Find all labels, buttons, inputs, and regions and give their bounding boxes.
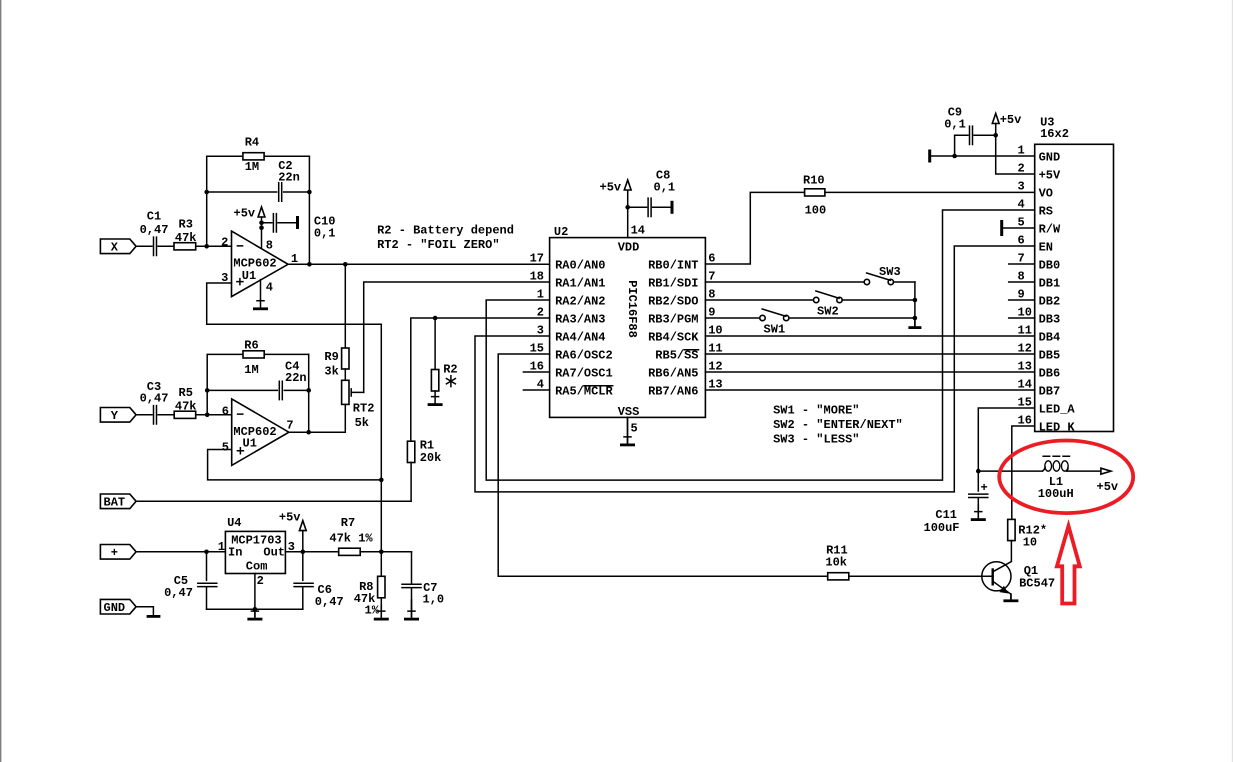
svg-text:+5v: +5v	[600, 180, 622, 194]
svg-text:DB7: DB7	[1039, 385, 1061, 399]
capacitor C11	[969, 494, 988, 497]
wire U1b pin5 loop	[208, 450, 382, 480]
svg-text:Y: Y	[111, 409, 119, 423]
wire feedback C4 branch	[207, 389, 309, 391]
switch SW3	[864, 265, 900, 285]
svg-text:2: 2	[221, 236, 228, 250]
wire Out to R7	[285, 551, 338, 553]
capacitor C1	[154, 237, 157, 255]
svg-text:1M: 1M	[245, 160, 259, 174]
wire R1 bottom to BAT	[410, 463, 412, 502]
svg-text:SW2 - "ENTER/NEXT": SW2 - "ENTER/NEXT"	[773, 418, 903, 432]
svg-text:RB1/SDI: RB1/SDI	[648, 277, 698, 291]
overline SS	[684, 349, 698, 351]
wire feedback right vertical U1b	[308, 354, 310, 432]
svg-text:0,47: 0,47	[140, 223, 169, 237]
ground switches	[908, 318, 921, 328]
annotation red arrow	[1057, 526, 1080, 604]
wire C8 branch	[628, 206, 671, 208]
wire U1a output to RA0	[288, 263, 549, 265]
svg-text:RB0/INT: RB0/INT	[648, 259, 698, 273]
potentiometer RT2	[342, 380, 349, 404]
svg-text:SW3: SW3	[879, 265, 901, 279]
svg-text:4: 4	[1018, 197, 1025, 211]
wire VDD pin14	[627, 191, 629, 238]
svg-text:SW3 - "LESS": SW3 - "LESS"	[773, 432, 859, 446]
wire RA6 to R11	[498, 354, 828, 576]
wire BAT	[136, 500, 411, 502]
wire R12 to Q1 collector	[993, 541, 1012, 572]
svg-text:GND: GND	[1039, 151, 1061, 165]
wire LCD GND pin1	[931, 155, 1034, 157]
svg-text:3: 3	[1018, 179, 1025, 193]
svg-text:SW1: SW1	[764, 323, 786, 337]
svg-text:22n: 22n	[278, 171, 300, 185]
wire RA3 to R1	[411, 318, 550, 441]
wire DB3 stub	[1009, 317, 1035, 319]
svg-text:R7: R7	[341, 516, 355, 530]
resistor R10	[805, 189, 825, 196]
svg-text:1: 1	[218, 540, 225, 554]
svg-text:13: 13	[1018, 359, 1032, 373]
svg-text:12: 12	[1018, 341, 1032, 355]
svg-text:+5v: +5v	[234, 207, 256, 221]
wire RA0 node down to R9	[344, 264, 346, 348]
junction feedback/output U1b	[306, 430, 311, 435]
ground R2	[428, 391, 443, 405]
svg-text:0,1: 0,1	[944, 117, 966, 131]
wire to C7	[411, 552, 413, 583]
svg-text:DB0: DB0	[1039, 259, 1061, 273]
svg-text:100uF: 100uF	[924, 521, 960, 535]
wire RB4 to DB4	[705, 335, 1034, 337]
junction C4 right	[306, 388, 311, 393]
svg-text:BAT: BAT	[104, 496, 126, 510]
svg-text:DB5: DB5	[1039, 349, 1061, 363]
terminal X	[100, 239, 136, 255]
wire R5 to U1b pin6	[196, 414, 232, 416]
svg-text:R6: R6	[244, 338, 258, 352]
svg-text:6: 6	[222, 405, 229, 419]
power +5v arrow LCD	[992, 114, 999, 124]
junction R2 tap	[433, 316, 438, 321]
capacitor C6	[294, 583, 313, 586]
svg-text:1M: 1M	[244, 363, 258, 377]
wire C1 to R3	[158, 245, 174, 247]
svg-text:In: In	[228, 545, 242, 559]
svg-text:47k 1%: 47k 1%	[329, 531, 373, 545]
junction R9 branch	[343, 262, 348, 267]
wire RB3 to SW1	[705, 317, 759, 319]
ground U4	[247, 610, 262, 619]
wire RB7 to DB7	[705, 389, 1034, 391]
wire R11 to Q1 base	[849, 575, 993, 577]
svg-text:2: 2	[537, 305, 544, 319]
wire RA4 to LCD EN	[475, 246, 1035, 492]
svg-text:RT2: RT2	[353, 401, 375, 415]
terminal +	[100, 545, 136, 561]
svg-text:R2: R2	[443, 362, 457, 376]
wire RB2 to SW2	[705, 299, 813, 301]
svg-text:SW2: SW2	[817, 305, 839, 319]
wire to R2	[434, 318, 436, 370]
junction Com ground	[253, 607, 258, 612]
svg-text:5k: 5k	[355, 416, 369, 430]
junction U1b inverting input	[205, 413, 210, 418]
wire +5v to pin8	[261, 217, 263, 248]
inductor L1	[1043, 456, 1070, 471]
value mark * R2	[446, 376, 455, 387]
resistor R5	[174, 411, 196, 418]
svg-text:EN: EN	[1039, 241, 1053, 255]
regulator U4 MCP1703	[225, 531, 285, 573]
net stub bar C10	[296, 216, 299, 229]
wire to L1	[978, 470, 1042, 472]
svg-text:0,47: 0,47	[140, 392, 169, 406]
svg-text:22n: 22n	[285, 371, 307, 385]
junction C9 ground branch	[952, 154, 957, 159]
svg-text:GND: GND	[104, 601, 126, 615]
resistor R3	[174, 243, 196, 250]
wire U1b output to RT2	[289, 404, 345, 432]
junction +5v LCD	[993, 133, 998, 138]
svg-text:C1: C1	[147, 210, 161, 224]
svg-text:17: 17	[530, 251, 544, 265]
resistor R1	[407, 441, 414, 462]
wire + to U4 In	[136, 551, 225, 553]
wire X to C1	[136, 245, 152, 247]
svg-text:0,47: 0,47	[315, 595, 344, 609]
wire R7 to divider node	[360, 551, 411, 553]
svg-text:2: 2	[257, 574, 264, 588]
wire C3 to R5	[158, 414, 174, 416]
svg-text:PIC16F88: PIC16F88	[625, 280, 639, 338]
svg-text:RA4/AN4: RA4/AN4	[555, 331, 605, 345]
wire RB0 up to R10	[705, 192, 804, 264]
svg-text:10k: 10k	[825, 555, 847, 569]
op-amp U1 (A half, MCP602)	[232, 231, 289, 297]
svg-text:11: 11	[1018, 323, 1032, 337]
svg-text:RA5/MCLR: RA5/MCLR	[555, 385, 613, 399]
wire C10 branch	[262, 222, 297, 224]
wire pin4 to ground	[260, 280, 262, 300]
junction C2 right	[307, 190, 312, 195]
wire R9 to RT2	[344, 369, 346, 380]
svg-text:4: 4	[266, 280, 273, 294]
capacitor C5	[198, 583, 217, 586]
capacitor C3	[154, 406, 157, 424]
resistor R9	[342, 348, 349, 369]
svg-text:47k: 47k	[175, 400, 197, 414]
svg-text:RB7/AN6: RB7/AN6	[648, 385, 698, 399]
ground C7	[404, 600, 419, 619]
svg-text:U1: U1	[242, 269, 256, 283]
svg-text:R5: R5	[179, 386, 193, 400]
capacitor C7	[402, 584, 421, 587]
terminal GND	[100, 599, 136, 615]
wire R/W stub	[1003, 227, 1034, 229]
wire L1 to +5v arrow	[1067, 470, 1101, 472]
wire U1a pin3 loop	[207, 283, 382, 324]
wire C11 to ground	[977, 498, 979, 517]
svg-text:5: 5	[222, 440, 229, 454]
junction C2 left	[204, 190, 209, 195]
wire rail to ground	[254, 609, 256, 616]
svg-text:RA3/AN3: RA3/AN3	[555, 313, 605, 327]
terminal Y	[100, 408, 136, 424]
net stub bar R/W	[1000, 220, 1003, 236]
capacitor C9	[970, 126, 973, 144]
svg-text:+5V: +5V	[1039, 169, 1061, 183]
wire DB0 stub	[1009, 263, 1035, 265]
svg-text:1,0: 1,0	[423, 593, 445, 607]
svg-text:100: 100	[805, 204, 827, 218]
net stub bar LCD GND	[928, 150, 931, 163]
svg-text:U4: U4	[227, 516, 241, 530]
wire RA5 stub	[523, 389, 549, 391]
svg-text:5: 5	[631, 421, 638, 435]
svg-text:VO: VO	[1039, 187, 1053, 201]
svg-text:47k: 47k	[175, 231, 197, 245]
svg-text:RA6/OSC2: RA6/OSC2	[555, 349, 613, 363]
resistor R12	[1008, 519, 1015, 540]
svg-text:X: X	[111, 241, 119, 255]
svg-text:16x2: 16x2	[1040, 127, 1069, 141]
svg-text:RB4/SCK: RB4/SCK	[648, 331, 699, 345]
wire SW2 to gnd rail	[842, 299, 915, 301]
svg-text:RB3/PGM: RB3/PGM	[648, 313, 698, 327]
resistor R4	[243, 153, 264, 160]
wire feedback loop R4 top	[207, 156, 310, 246]
svg-text:DB1: DB1	[1039, 277, 1061, 291]
svg-text:DB3: DB3	[1039, 313, 1061, 327]
resistor R8	[378, 576, 385, 598]
svg-text:18: 18	[530, 269, 544, 283]
wire ground rail U4	[207, 608, 303, 610]
svg-text:RB6/AN5: RB6/AN5	[648, 367, 698, 381]
svg-text:RB2/SDO: RB2/SDO	[648, 295, 698, 309]
wire C6 to rail	[302, 587, 304, 609]
junction L1 / C11	[976, 469, 981, 474]
junction SW1 rail	[913, 316, 918, 321]
junction SW2 rail	[913, 298, 918, 303]
svg-text:8: 8	[266, 238, 273, 252]
ground VSS	[620, 417, 635, 445]
wire bias vertical	[380, 324, 382, 552]
ground R8	[374, 605, 389, 619]
svg-text:100uH: 100uH	[1038, 487, 1074, 501]
wire to R8	[380, 552, 382, 577]
svg-text:+: +	[111, 546, 118, 560]
svg-text:DB4: DB4	[1039, 331, 1061, 345]
svg-text:R9: R9	[324, 350, 338, 364]
wire RB6 to DB6	[705, 371, 1034, 373]
wire C7 to ground	[411, 588, 413, 616]
power +5v arrow VDD	[624, 180, 631, 190]
wire to C11	[977, 471, 979, 491]
net stub bar C8	[671, 201, 674, 214]
svg-text:14: 14	[1018, 377, 1032, 391]
wire feedback loop R6 top	[207, 354, 309, 414]
wire GND terminal	[136, 607, 153, 615]
wire RA7 stub	[523, 371, 549, 373]
svg-text:3k: 3k	[324, 365, 338, 379]
wire R10 to LCD VO	[825, 191, 1035, 193]
capacitor C2	[279, 183, 282, 201]
svg-text:+5v: +5v	[279, 510, 301, 524]
switch SW1	[760, 309, 789, 337]
svg-text:R2 - Battery depend: R2 - Battery depend	[377, 224, 514, 238]
svg-text:LED_A: LED_A	[1039, 403, 1076, 417]
wire DB2 stub	[1009, 299, 1035, 301]
svg-text:U2: U2	[554, 225, 568, 239]
svg-text:C11: C11	[935, 508, 957, 522]
svg-text:RA1/AN1: RA1/AN1	[555, 277, 605, 291]
capacitor C4	[279, 381, 282, 399]
svg-text:10: 10	[1023, 535, 1037, 549]
power +5v arrow U4	[299, 521, 306, 531]
wire +5v arrow stub	[302, 531, 304, 552]
svg-text:0,1: 0,1	[654, 181, 676, 195]
wire feedback right vertical	[308, 156, 310, 264]
wire SW1 to gnd rail	[789, 317, 915, 319]
ground Q1 emitter	[1003, 594, 1018, 601]
capacitor C10	[273, 214, 276, 232]
svg-text:RA2/AN2: RA2/AN2	[555, 295, 605, 309]
wire RB5 to DB5	[705, 353, 1034, 355]
svg-text:RB5/SS: RB5/SS	[655, 349, 698, 363]
capacitor C8	[648, 198, 651, 216]
ground C11	[971, 505, 986, 520]
svg-text:20k: 20k	[420, 451, 442, 465]
wire R8 to ground	[380, 598, 382, 617]
op-amp U1 (B half, MCP602)	[232, 399, 289, 466]
wire switch ground rail	[914, 282, 916, 326]
LCD module U3 16x2	[1035, 144, 1114, 431]
wire RB1 to SW3	[705, 281, 864, 283]
junction bias net	[379, 478, 384, 483]
svg-text:BC547: BC547	[1019, 577, 1055, 591]
wire +5v to LCD pin2	[996, 124, 1035, 175]
svg-text:LED_K: LED_K	[1039, 421, 1076, 435]
resistor R11	[828, 573, 849, 580]
svg-text:RA0/AN0: RA0/AN0	[555, 259, 605, 273]
microcontroller U2 PIC16F88	[550, 238, 706, 418]
svg-text:RA7/OSC1: RA7/OSC1	[555, 367, 613, 381]
svg-text:U1: U1	[243, 437, 257, 451]
svg-text:DB6: DB6	[1039, 367, 1061, 381]
svg-text:Out: Out	[263, 545, 285, 559]
junction node U1a inverting input	[204, 244, 209, 249]
junction +5v / C6	[301, 550, 306, 555]
wire LED_K down to R12	[1012, 426, 1035, 519]
wire RT2 wiper to RA1	[364, 282, 550, 392]
wire Y to C3	[136, 414, 152, 416]
svg-text:6: 6	[1018, 233, 1025, 247]
power +5v arrow U1a	[258, 207, 265, 217]
transistor Q1 BC547	[982, 562, 1011, 599]
junction pin8	[259, 226, 264, 231]
svg-text:+5v: +5v	[1000, 113, 1022, 127]
junction feedback/output	[307, 262, 312, 267]
overline MCLR	[584, 385, 613, 387]
svg-text:DB2: DB2	[1039, 295, 1061, 309]
RT2 wiper	[351, 389, 364, 396]
wire RA2 to LCD RS	[486, 210, 1034, 480]
svg-text:SW1 - "MORE": SW1 - "MORE"	[773, 403, 859, 417]
svg-text:0,47: 0,47	[164, 586, 193, 600]
svg-text:Com: Com	[246, 559, 268, 573]
junction C10 tap	[259, 221, 264, 226]
wire DB1 stub	[1009, 281, 1035, 283]
junction C8 tap	[625, 205, 630, 210]
svg-text:+: +	[981, 481, 988, 495]
svg-text:7: 7	[286, 418, 293, 432]
svg-text:RS: RS	[1039, 205, 1053, 219]
ground terminal	[147, 615, 161, 618]
wire Com pin2	[254, 574, 256, 610]
resistor R7	[339, 548, 361, 555]
wire C5 to rail	[206, 587, 208, 609]
resistor R6	[243, 351, 264, 358]
wire LED_A down	[978, 408, 1034, 471]
svg-text:VSS: VSS	[618, 405, 640, 419]
ground U1a pin4	[253, 300, 268, 309]
wire to C5	[206, 552, 208, 581]
svg-text:R10: R10	[803, 174, 825, 188]
terminal BAT	[100, 494, 136, 510]
junction C5 tap	[204, 550, 209, 555]
wire to C6	[302, 552, 304, 581]
svg-text:0,1: 0,1	[314, 226, 336, 240]
svg-text:R4: R4	[245, 136, 259, 150]
svg-text:R3: R3	[179, 218, 193, 232]
wire VSS pin5	[627, 417, 629, 443]
svg-text:VDD: VDD	[618, 241, 640, 255]
annotation red ellipse around L1	[999, 441, 1133, 514]
svg-text:RT2 - "FOIL ZERO": RT2 - "FOIL ZERO"	[377, 238, 499, 252]
net arrow +5v right	[1101, 468, 1111, 474]
junction C4 left	[205, 388, 210, 393]
svg-text:14: 14	[631, 223, 645, 237]
resistor R2	[431, 370, 438, 392]
wire SW3 to gnd rail	[894, 281, 915, 283]
junction R7/R8 divider	[379, 550, 384, 555]
wire C9 branch	[955, 135, 996, 156]
switch SW2	[814, 291, 843, 319]
svg-text:R/W: R/W	[1039, 223, 1061, 237]
wire feedback C2 branch	[207, 191, 310, 193]
wire R3 to U1a pin2	[196, 245, 232, 247]
svg-text:+5v: +5v	[1097, 480, 1119, 494]
